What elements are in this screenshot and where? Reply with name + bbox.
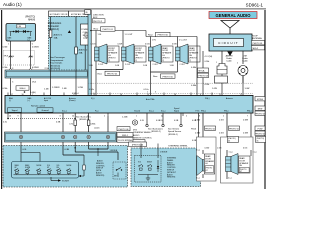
steering wheel remote unit box (without remote) <box>131 148 201 187</box>
svg-text:MODE: MODE <box>67 165 72 167</box>
strip pass-through terminal 2 <box>61 135 64 138</box>
svg-text:0.7k: 0.7k <box>69 124 73 126</box>
svg-text:0.5G: 0.5G <box>219 120 224 122</box>
svg-text:7: 7 <box>247 116 248 118</box>
shield dotted line above head unit <box>88 92 253 94</box>
remote unit inner module <box>135 144 168 183</box>
front door speaker LH driver <box>95 47 100 61</box>
svg-text:PHOTO 60: PHOTO 60 <box>163 76 174 78</box>
head unit pin name labels row <box>9 97 233 102</box>
remote unit caption <box>167 158 177 179</box>
front door harness column LH <box>197 137 217 181</box>
svg-text:4R-6: 4R-6 <box>32 81 36 83</box>
svg-text:POW: POW <box>258 128 263 130</box>
svg-text:8: 8 <box>199 116 200 118</box>
switch panel ground lead <box>51 177 70 183</box>
svg-text:I/P-E: I/P-E <box>4 56 9 58</box>
M73 steering wheel audio control caption <box>133 130 153 144</box>
switch SEEK UP <box>14 165 19 175</box>
shield dashed boundary <box>4 51 35 66</box>
see illustrations note <box>76 115 91 121</box>
svg-text:1 C-OUT: 1 C-OUT <box>125 34 134 36</box>
fuse box header: HOT IN ACC OR ON <box>49 11 69 17</box>
rear harness label 1 <box>90 27 146 32</box>
connector label M73-A <box>198 68 210 78</box>
joint connector BAG labels <box>8 37 32 42</box>
rear speaker RH wires <box>217 148 233 180</box>
antenna feed wire XM into head unit <box>212 76 249 96</box>
svg-text:REMOTE): REMOTE) <box>96 175 105 177</box>
svg-text:ILL(-): ILL(-) <box>161 111 166 113</box>
svg-text:See Illustrations: See Illustrations <box>148 128 163 131</box>
svg-text:PHOTO 06: PHOTO 06 <box>255 113 266 115</box>
wire speaker4 feed <box>172 37 188 48</box>
svg-text:1 MODE: 1 MODE <box>110 150 118 152</box>
svg-text:AUDIO 2: AUDIO 2 <box>79 49 89 52</box>
svg-text:PHOTO 2: PHOTO 2 <box>93 21 103 23</box>
svg-text:RR(+): RR(+) <box>201 111 206 113</box>
svg-text:2: 2 <box>104 116 105 118</box>
svg-text:PHOTO 01: PHOTO 01 <box>253 43 264 45</box>
svg-text:Audio (1): Audio (1) <box>3 2 22 7</box>
svg-text:6: 6 <box>12 81 13 83</box>
rear door speaker RH label <box>189 46 201 62</box>
svg-text:1.0W: 1.0W <box>245 88 250 90</box>
svg-text:DOWN: DOWN <box>25 167 31 169</box>
svg-text:0.5B: 0.5B <box>192 140 197 142</box>
svg-text:1.25B: 1.25B <box>122 117 128 119</box>
switch VOL DOWN <box>56 165 61 175</box>
photo 06 label above remote unit <box>129 142 147 147</box>
svg-text:Fuse Details: Fuse Details <box>50 62 63 65</box>
svg-text:05: 05 <box>228 141 230 143</box>
mid-right wire ILL- <box>156 113 164 127</box>
svg-text:F(+): F(+) <box>95 111 99 113</box>
head unit signal box <box>8 108 22 112</box>
svg-text:HOT IN ACC OR ON: HOT IN ACC OR ON <box>50 13 68 16</box>
right margin label boxes <box>255 97 266 136</box>
svg-text:17: 17 <box>11 94 13 96</box>
svg-text:1.0B: 1.0B <box>89 65 94 67</box>
strip pass-through terminal 3 <box>74 135 77 138</box>
svg-text:4 C-7(H): 4 C-7(H) <box>205 56 213 58</box>
svg-text:(SD961-2): (SD961-2) <box>151 131 161 133</box>
head unit ground box <box>37 108 53 112</box>
switch SEEK DOWN <box>25 165 31 175</box>
svg-text:ILL(+): ILL(+) <box>149 111 154 113</box>
svg-text:0.5G: 0.5G <box>219 133 224 135</box>
svg-text:3: 3 <box>155 92 156 94</box>
svg-text:CLOCK SPRING: CLOCK SPRING <box>118 140 133 142</box>
svg-text:1.25B: 1.25B <box>78 87 84 89</box>
svg-text:4: 4 <box>50 94 51 96</box>
svg-text:6: 6 <box>32 43 33 45</box>
svg-text:UP: UP <box>47 167 49 169</box>
svg-text:7: 7 <box>32 68 33 70</box>
wire from joint connector BAG(-) down to head unit <box>3 41 11 96</box>
svg-text:0.5W: 0.5W <box>118 44 123 46</box>
fuse box note: see passenger compartment <box>50 56 65 70</box>
svg-text:(SD930-1): (SD930-1) <box>168 134 178 136</box>
svg-text:Compartment: Compartment <box>50 59 64 62</box>
svg-text:PHOTO 05: PHOTO 05 <box>229 128 240 130</box>
svg-text:0.5Br: 0.5Br <box>205 61 210 63</box>
front door speaker RH cone <box>126 44 134 64</box>
wire speaker4 return <box>170 61 186 72</box>
wire fuse2 to head unit BATT <box>76 75 84 96</box>
inline connector label above band left <box>16 86 36 94</box>
fuse AUDIO 1 10A <box>49 17 63 48</box>
svg-text:NFW: NFW <box>258 108 263 110</box>
svg-text:P.Gn: P.Gn <box>196 111 200 113</box>
M73 connector circle <box>132 120 137 125</box>
head unit right lower pin labels <box>62 98 252 113</box>
dashed signal return wire <box>7 116 76 119</box>
power connector block <box>81 24 91 70</box>
svg-text:0.5Br: 0.5Br <box>3 46 8 49</box>
wire speaker1 return <box>89 61 105 96</box>
svg-text:PHOTO 01: PHOTO 01 <box>199 76 210 78</box>
svg-text:1.0B: 1.0B <box>62 88 67 90</box>
rear harness label 2 <box>146 31 197 37</box>
svg-text:PHOTO 05: PHOTO 05 <box>205 128 216 130</box>
rear door speaker LH cone <box>153 44 161 64</box>
svg-text:07: 07 <box>206 170 208 172</box>
roof antenna circuit box <box>209 34 252 51</box>
svg-text:(Power): (Power) <box>69 100 76 102</box>
svg-text:0.5Br: 0.5Br <box>191 84 196 87</box>
long wire x203 antenna power <box>203 51 213 96</box>
switch panel key sub-box <box>113 162 126 179</box>
svg-text:switch: switch <box>94 126 100 129</box>
svg-text:0.5Gr: 0.5Gr <box>89 89 94 91</box>
svg-text:Ground: Ground <box>134 111 140 113</box>
svg-text:VOL: VOL <box>57 165 60 167</box>
svg-text:PHOTO 01: PHOTO 01 <box>103 29 114 31</box>
svg-text:RR(-): RR(-) <box>224 111 229 113</box>
harness strip pin marks <box>12 68 81 84</box>
svg-text:13: 13 <box>93 94 95 96</box>
svg-text:TOR: TOR <box>83 38 88 40</box>
svg-text:UP: UP <box>15 167 17 169</box>
svg-text:M05-2: M05-2 <box>253 48 260 50</box>
svg-text:16: 16 <box>12 56 14 58</box>
left page border <box>1 10 2 189</box>
svg-text:10A: 10A <box>54 36 58 39</box>
head unit pin numbers below <box>9 116 248 118</box>
svg-text:ANTENNA: ANTENNA <box>252 37 262 40</box>
svg-text:2 (-): 2 (-) <box>228 178 232 180</box>
wire into switch panel from terminal4 <box>89 142 118 156</box>
svg-text:1: 1 <box>8 43 9 45</box>
svg-text:1.0B: 1.0B <box>115 65 120 67</box>
svg-text:JUNCTION: JUNCTION <box>93 15 104 17</box>
svg-text:0.3B: 0.3B <box>56 122 61 124</box>
wire into switch panel from terminal2 <box>63 142 85 177</box>
svg-text:(PHOTO): (PHOTO) <box>25 17 35 19</box>
svg-text:ILL(+): ILL(+) <box>62 111 67 113</box>
svg-text:1 IN: 1 IN <box>152 40 156 42</box>
wire speaker3 feed <box>145 37 156 48</box>
svg-text:10: 10 <box>9 116 11 118</box>
svg-text:MODE: MODE <box>147 162 152 164</box>
svg-text:0.5B: 0.5B <box>174 120 179 122</box>
svg-text:0.86k: 0.86k <box>91 124 96 126</box>
svg-text:1: 1 <box>216 62 217 64</box>
svg-text:1 MODE: 1 MODE <box>160 152 168 154</box>
head unit pin stubs above <box>8 93 212 96</box>
svg-text:1-4(H): 1-4(H) <box>30 92 36 94</box>
strip pass-through terminal 4 <box>87 135 90 138</box>
head unit pin stubs below <box>8 113 183 116</box>
joint connector box (diode module) <box>6 24 36 42</box>
rear speaker LH (bottom) label <box>204 154 214 174</box>
right page border <box>264 10 265 189</box>
head unit pin numbers above <box>11 94 242 96</box>
svg-text:15A: 15A <box>79 51 83 54</box>
wire label 1.0B near fuse outputs <box>44 88 96 95</box>
svg-text:STEERING WHEEL: STEERING WHEEL <box>133 132 152 134</box>
switch VOL UP <box>47 165 52 175</box>
svg-text:Cable: Cable <box>226 61 232 63</box>
svg-text:VOL: VOL <box>138 162 141 164</box>
front door speaker LH cone <box>99 44 107 64</box>
antenna mast symbol <box>221 21 239 35</box>
instrument panel harness strip <box>5 69 89 78</box>
wire head unit to clock spring pin2 <box>56 113 63 132</box>
svg-text:0.5Gr: 0.5Gr <box>145 44 150 46</box>
svg-text:1.0W: 1.0W <box>212 88 217 90</box>
svg-text:STEERING WHEEL: STEERING WHEEL <box>168 146 188 148</box>
svg-text:0.5Br: 0.5Br <box>205 84 210 86</box>
steering wheel switch panel (with remote) <box>3 146 128 188</box>
clock spring label boxes <box>117 127 133 143</box>
svg-text:PHOTO 01: PHOTO 01 <box>107 74 118 76</box>
svg-text:Rear: Rear <box>153 75 158 78</box>
svg-text:3 (+): 3 (+) <box>196 150 200 152</box>
strip pass-through terminal 1 <box>19 135 22 138</box>
svg-text:(SD100-4): (SD100-4) <box>50 65 60 67</box>
svg-text:2 OUT: 2 OUT <box>153 64 159 66</box>
svg-text:0.5B/O: 0.5B/O <box>156 120 163 122</box>
svg-text:9: 9 <box>18 116 19 118</box>
svg-text:Signal: Signal <box>12 110 18 112</box>
far right wire continues down <box>243 148 257 157</box>
in-line connector symbols on left wires <box>4 56 33 59</box>
svg-text:M73-A: M73-A <box>199 69 206 72</box>
svg-text:SD961-1: SD961-1 <box>246 3 264 8</box>
svg-text:(PHOTO) 06: (PHOTO) 06 <box>132 145 144 147</box>
instrument panel junction box (fuse box) <box>49 17 91 71</box>
svg-text:M06-4: M06-4 <box>20 88 27 90</box>
svg-text:REMOTE): REMOTE) <box>167 177 176 179</box>
rear door speaker LH label <box>162 46 174 62</box>
fuse box header: HOT AT ALL TIMES <box>69 11 91 17</box>
svg-text:0.5G: 0.5G <box>217 148 222 150</box>
svg-text:2 OUT: 2 OUT <box>98 64 104 66</box>
svg-text:AM/FM: AM/FM <box>226 55 233 58</box>
rear speaker LH (bottom) cone <box>197 156 204 176</box>
svg-text:Speed Sensor: Speed Sensor <box>168 130 181 133</box>
front door harness column RH <box>221 137 254 183</box>
remote unit diode <box>157 160 159 172</box>
svg-text:1.0B: 1.0B <box>44 89 49 91</box>
svg-text:2: 2 <box>237 63 238 65</box>
svg-text:1 IN: 1 IN <box>98 34 102 36</box>
inline connector labels bottom right wires <box>191 126 240 131</box>
svg-text:24: 24 <box>72 116 74 118</box>
svg-text:07: 07 <box>240 171 242 173</box>
svg-text:See Vehicle: See Vehicle <box>168 129 180 131</box>
head unit (audio) main block <box>5 96 253 114</box>
svg-text:REMOTE CONTROL: REMOTE CONTROL <box>133 138 153 140</box>
svg-text:CIRCUIT: CIRCUIT <box>218 41 239 45</box>
wire fuse1 to head unit ACC <box>51 47 61 96</box>
svg-text:0.3B: 0.3B <box>65 149 70 151</box>
front door speaker LH label <box>108 46 120 62</box>
svg-text:F(+): F(+) <box>91 98 95 100</box>
svg-text:0.5Br: 0.5Br <box>205 148 210 150</box>
svg-text:Cable: Cable <box>242 61 248 63</box>
svg-text:3 (-): 3 (-) <box>196 178 200 180</box>
diode D1 <box>13 30 19 33</box>
wire P.Gn into remote unit <box>192 113 199 148</box>
svg-text:M05-1: M05-1 <box>122 135 129 137</box>
roof antenna label <box>252 36 265 50</box>
rear door speaker LH driver <box>149 47 154 61</box>
rear right channel wire (-) <box>219 113 227 150</box>
svg-text:8: 8 <box>74 94 75 96</box>
svg-text:M46-B: M46-B <box>28 20 35 22</box>
fuse AUDIO 2 15A <box>75 17 88 76</box>
svg-text:PHOTO 60: PHOTO 60 <box>158 35 169 37</box>
svg-text:Rear: Rear <box>94 28 99 31</box>
svg-text:0.5Br: 0.5Br <box>195 119 200 122</box>
AM/FM coax connector plug <box>215 62 228 96</box>
fuse photo label boxes above bottom speakers <box>227 136 265 142</box>
diode D2 <box>23 30 29 33</box>
svg-text:5: 5 <box>186 116 187 118</box>
rear door speaker RH driver <box>176 47 181 61</box>
steering wheel caption <box>168 146 188 148</box>
switch panel caption <box>96 160 105 177</box>
switch MODE <box>36 165 41 175</box>
svg-text:1.0B: 1.0B <box>143 65 148 67</box>
resistor R_remote2 <box>87 113 99 132</box>
remote unit switch 1 <box>138 162 143 171</box>
svg-text:1 C-OUT: 1 C-OUT <box>179 40 188 42</box>
resistor R_remote1 <box>69 113 76 132</box>
remote unit bottom wire and ground <box>138 175 158 181</box>
see illustrations note right <box>148 128 181 136</box>
svg-text:Auto P/Mic: Auto P/Mic <box>146 98 155 101</box>
svg-text:27-4: 27-4 <box>45 68 49 70</box>
svg-text:3: 3 <box>60 116 61 118</box>
svg-text:AUDIO: AUDIO <box>133 134 140 137</box>
svg-text:PHOTO 06: PHOTO 06 <box>119 129 130 131</box>
svg-text:05: 05 <box>256 141 258 143</box>
svg-text:7: 7 <box>32 94 33 96</box>
strip pass-through terminal 5 <box>106 135 109 138</box>
wire from joint connector BAG(+) down to head unit <box>31 41 40 96</box>
svg-text:0.5Br: 0.5Br <box>3 66 8 69</box>
AM/FM radio cable wire <box>222 51 233 64</box>
svg-text:Input: Input <box>44 99 48 102</box>
wire x108 to strip <box>107 116 109 132</box>
switch assembly box <box>12 162 79 179</box>
svg-text:RR(+): RR(+) <box>247 111 252 113</box>
long wire x197 from rear harness down <box>191 37 197 96</box>
svg-text:0.5Br: 0.5Br <box>191 66 196 69</box>
svg-text:Remote control: Remote control <box>31 105 46 108</box>
svg-text:11: 11 <box>219 94 221 96</box>
svg-text:2: 2 <box>223 116 224 118</box>
svg-text:MODE: MODE <box>37 165 42 167</box>
switch MUTE <box>66 165 71 175</box>
rear right channel wire 2 <box>243 113 251 150</box>
rear speaker RH (bottom) driver <box>226 157 232 172</box>
rear return rail 1 <box>96 70 123 76</box>
svg-text:PHOTO 05: PHOTO 05 <box>255 133 266 135</box>
wire speaker1 feed <box>91 31 102 48</box>
mid-right wire ILL+ <box>140 113 148 127</box>
svg-text:0.5Br: 0.5Br <box>3 87 8 90</box>
rear door speaker RH cone <box>180 44 188 64</box>
wire speaker2 feed <box>118 31 134 48</box>
svg-text:Antenna: Antenna <box>226 97 233 100</box>
XM radio cable wire <box>242 51 248 64</box>
rear return rail 2 <box>151 72 178 78</box>
svg-text:4: 4 <box>32 56 33 58</box>
rear right channel wire (+) <box>195 113 203 150</box>
svg-text:AUDIO 1: AUDIO 1 <box>54 34 64 37</box>
svg-text:See Passenger: See Passenger <box>50 56 65 59</box>
svg-text:0.5W: 0.5W <box>172 44 177 46</box>
shield dotted line mid <box>88 82 253 84</box>
svg-text:1 (+): 1 (+) <box>229 152 233 154</box>
mid-right wire speed signal <box>174 113 182 127</box>
svg-text:(SD100-8): (SD100-8) <box>50 68 60 70</box>
joint connector M46-B label <box>25 17 35 22</box>
svg-text:12: 12 <box>240 94 242 96</box>
svg-text:14: 14 <box>120 94 122 96</box>
svg-text:1 (+): 1 (+) <box>253 152 257 154</box>
svg-text:0.5Br: 0.5Br <box>195 132 200 135</box>
svg-text:16: 16 <box>174 94 176 96</box>
svg-text:GENERAL AUDIO: GENERAL AUDIO <box>216 13 252 18</box>
svg-text:1.25B/R: 1.25B/R <box>52 87 60 89</box>
svg-text:1.0B: 1.0B <box>170 65 175 67</box>
svg-text:18: 18 <box>22 94 24 96</box>
svg-text:0.5G: 0.5G <box>243 148 248 150</box>
rear speaker LH wires <box>196 150 203 180</box>
title separator bar <box>0 8 266 10</box>
front door speaker RH driver <box>122 47 127 61</box>
svg-text:6: 6 <box>200 94 201 96</box>
fuse box note: multifunction connector <box>48 22 71 33</box>
wire head unit to clock spring pin1 <box>3 113 128 132</box>
svg-text:0.5W/O: 0.5W/O <box>32 47 39 49</box>
arrow from circuit box to cables <box>227 52 232 57</box>
remote unit switch 2 <box>147 162 152 171</box>
rear speaker RH (bottom) cone <box>231 154 238 175</box>
svg-text:P.B(-): P.B(-) <box>205 98 210 100</box>
head unit remote control label <box>31 105 46 108</box>
svg-text:Rear: Rear <box>98 73 103 76</box>
svg-text:Rear: Rear <box>148 33 153 36</box>
svg-text:2 OUT: 2 OUT <box>180 64 186 66</box>
wire speaker3 return <box>143 61 159 96</box>
